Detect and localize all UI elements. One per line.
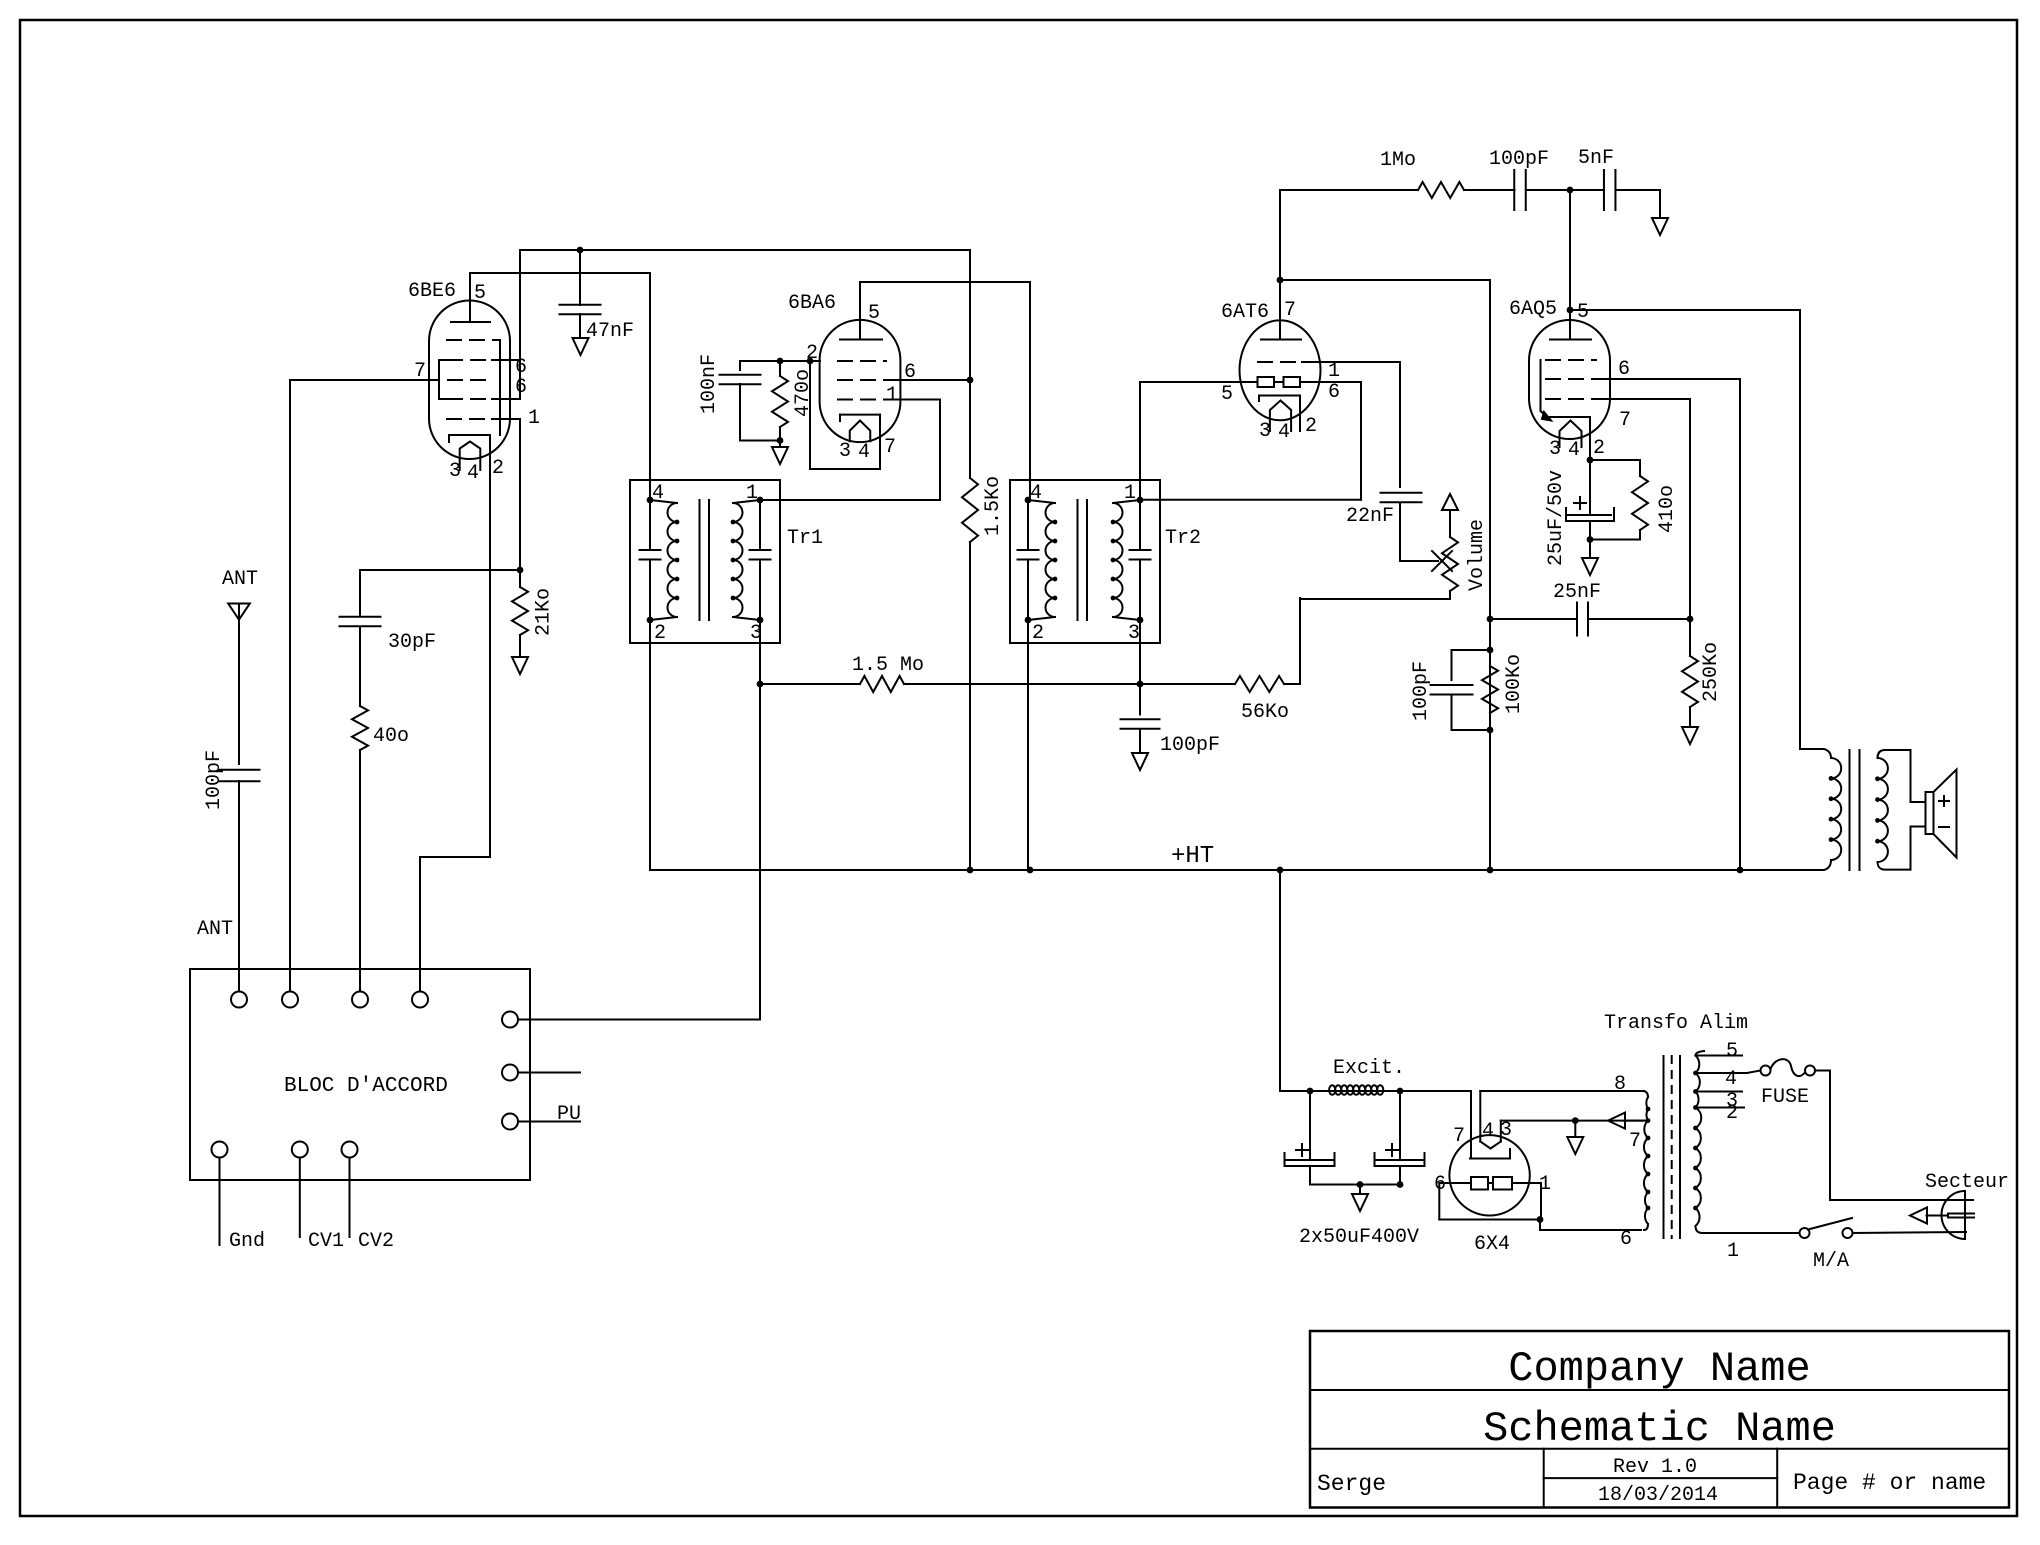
svg-text:2: 2 bbox=[1305, 415, 1317, 438]
svg-text:4: 4 bbox=[858, 441, 870, 464]
svg-text:6: 6 bbox=[904, 361, 916, 384]
svg-text:100pF: 100pF bbox=[1160, 734, 1220, 757]
svg-text:7: 7 bbox=[884, 436, 896, 459]
svg-text:470o: 470o bbox=[792, 369, 815, 417]
svg-text:PU: PU bbox=[557, 1103, 581, 1126]
svg-text:3: 3 bbox=[1259, 420, 1271, 443]
svg-text:5nF: 5nF bbox=[1578, 147, 1614, 170]
svg-text:2: 2 bbox=[1726, 1102, 1738, 1125]
svg-text:4: 4 bbox=[467, 462, 479, 485]
svg-text:100pF: 100pF bbox=[1489, 148, 1549, 171]
svg-text:5: 5 bbox=[1221, 383, 1233, 406]
svg-text:2: 2 bbox=[654, 622, 666, 645]
svg-text:100pF: 100pF bbox=[1410, 661, 1433, 721]
svg-text:Secteur: Secteur bbox=[1925, 1171, 2009, 1194]
svg-text:Transfo Alim: Transfo Alim bbox=[1604, 1012, 1748, 1035]
svg-text:6BE6: 6BE6 bbox=[408, 280, 456, 303]
svg-text:3: 3 bbox=[449, 460, 461, 483]
svg-text:100Ko: 100Ko bbox=[1503, 654, 1526, 714]
svg-text:Rev 1.0: Rev 1.0 bbox=[1613, 1456, 1697, 1479]
svg-text:1: 1 bbox=[1727, 1240, 1739, 1263]
svg-text:7: 7 bbox=[1619, 409, 1631, 432]
svg-text:22nF: 22nF bbox=[1346, 505, 1394, 528]
svg-text:1: 1 bbox=[1124, 482, 1136, 505]
svg-text:3: 3 bbox=[839, 440, 851, 463]
svg-text:2: 2 bbox=[1032, 622, 1044, 645]
svg-text:4: 4 bbox=[1482, 1120, 1494, 1143]
svg-text:BLOC D'ACCORD: BLOC D'ACCORD bbox=[284, 1075, 448, 1098]
svg-text:Serge: Serge bbox=[1317, 1471, 1386, 1497]
svg-text:6BA6: 6BA6 bbox=[788, 292, 836, 315]
svg-text:18/03/2014: 18/03/2014 bbox=[1598, 1484, 1718, 1507]
svg-text:6: 6 bbox=[515, 376, 527, 399]
svg-text:7: 7 bbox=[414, 360, 426, 383]
svg-text:6X4: 6X4 bbox=[1474, 1233, 1510, 1256]
svg-text:6: 6 bbox=[1434, 1173, 1446, 1196]
svg-text:2x50uF400V: 2x50uF400V bbox=[1299, 1226, 1419, 1249]
svg-text:CV1: CV1 bbox=[308, 1230, 344, 1253]
svg-text:Tr2: Tr2 bbox=[1165, 527, 1201, 550]
svg-text:4: 4 bbox=[1030, 482, 1042, 505]
svg-text:47nF: 47nF bbox=[586, 320, 634, 343]
svg-text:5: 5 bbox=[868, 302, 880, 325]
svg-text:100nF: 100nF bbox=[698, 354, 721, 414]
svg-text:1.5Ko: 1.5Ko bbox=[982, 476, 1005, 536]
svg-text:6AT6: 6AT6 bbox=[1221, 301, 1269, 324]
svg-text:6: 6 bbox=[1328, 381, 1340, 404]
svg-text:6: 6 bbox=[1618, 358, 1630, 381]
svg-text:1: 1 bbox=[1328, 360, 1340, 383]
svg-text:ANT: ANT bbox=[197, 918, 233, 941]
svg-text:7: 7 bbox=[1284, 299, 1296, 322]
svg-text:+HT: +HT bbox=[1171, 843, 1214, 870]
svg-text:M/A: M/A bbox=[1813, 1250, 1849, 1273]
svg-text:Excit.: Excit. bbox=[1333, 1057, 1405, 1080]
svg-text:30pF: 30pF bbox=[388, 631, 436, 654]
svg-text:Page # or name: Page # or name bbox=[1793, 1470, 1986, 1496]
svg-text:250Ko: 250Ko bbox=[1700, 642, 1723, 702]
svg-text:56Ko: 56Ko bbox=[1241, 701, 1289, 724]
svg-text:6AQ5: 6AQ5 bbox=[1509, 298, 1557, 321]
svg-text:4: 4 bbox=[1725, 1068, 1737, 1091]
svg-text:ANT: ANT bbox=[222, 568, 258, 591]
svg-text:CV2: CV2 bbox=[358, 1230, 394, 1253]
svg-text:1: 1 bbox=[528, 407, 540, 430]
svg-text:1: 1 bbox=[1539, 1173, 1551, 1196]
svg-text:Gnd: Gnd bbox=[229, 1230, 265, 1253]
svg-text:1: 1 bbox=[886, 384, 898, 407]
svg-text:Tr1: Tr1 bbox=[787, 527, 823, 550]
svg-text:2: 2 bbox=[1593, 437, 1605, 460]
svg-text:FUSE: FUSE bbox=[1761, 1086, 1809, 1109]
svg-text:6: 6 bbox=[1620, 1228, 1632, 1251]
svg-text:Schematic Name: Schematic Name bbox=[1483, 1405, 1836, 1453]
svg-text:100pF: 100pF bbox=[203, 750, 226, 810]
svg-text:3: 3 bbox=[1500, 1119, 1512, 1142]
svg-text:2: 2 bbox=[806, 342, 818, 365]
svg-text:25uF/50v: 25uF/50v bbox=[1545, 470, 1568, 566]
svg-text:8: 8 bbox=[1614, 1073, 1626, 1096]
svg-text:5: 5 bbox=[474, 282, 486, 305]
svg-text:25nF: 25nF bbox=[1553, 581, 1601, 604]
svg-text:410o: 410o bbox=[1656, 485, 1679, 533]
svg-text:4: 4 bbox=[1278, 421, 1290, 444]
svg-text:21Ko: 21Ko bbox=[533, 588, 556, 636]
svg-text:1Mo: 1Mo bbox=[1380, 149, 1416, 172]
svg-text:7: 7 bbox=[1453, 1125, 1465, 1148]
svg-text:4: 4 bbox=[652, 482, 664, 505]
svg-text:Volume: Volume bbox=[1466, 519, 1489, 591]
svg-text:1: 1 bbox=[746, 482, 758, 505]
svg-text:7: 7 bbox=[1629, 1130, 1641, 1153]
svg-text:5: 5 bbox=[1577, 301, 1589, 324]
svg-text:3: 3 bbox=[1549, 438, 1561, 461]
svg-text:Company Name: Company Name bbox=[1508, 1345, 1810, 1393]
svg-text:5: 5 bbox=[1726, 1040, 1738, 1063]
svg-text:40o: 40o bbox=[373, 725, 409, 748]
svg-text:2: 2 bbox=[492, 457, 504, 480]
svg-text:4: 4 bbox=[1568, 439, 1580, 462]
svg-text:3: 3 bbox=[1128, 622, 1140, 645]
svg-text:1.5 Mo: 1.5 Mo bbox=[852, 654, 924, 677]
